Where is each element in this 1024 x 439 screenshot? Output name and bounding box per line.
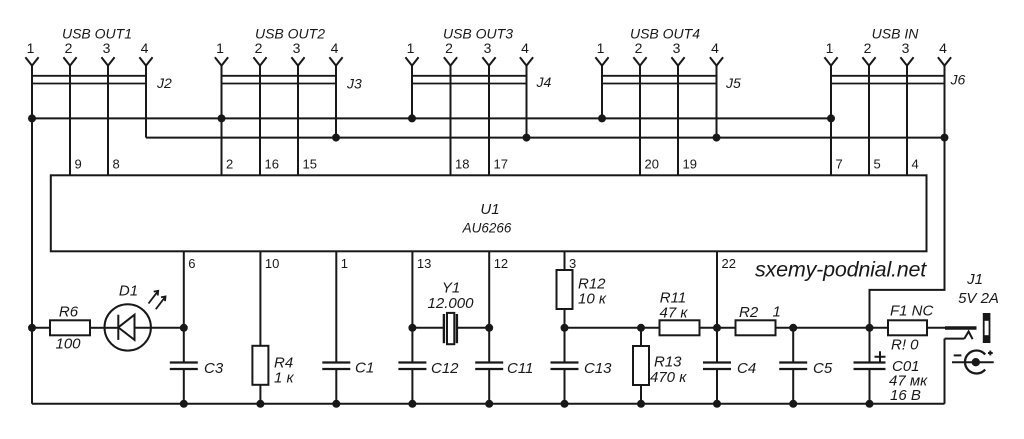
svg-text:1: 1: [407, 40, 415, 56]
svg-text:47 к: 47 к: [660, 305, 689, 322]
wire J2 pin4 to +5V bus: [145, 66, 147, 138]
wire J4 pin2 to U1 pin18: [450, 66, 452, 176]
svg-text:USB OUT2: USB OUT2: [255, 26, 325, 42]
capacitor C13: [551, 328, 613, 404]
capacitor C11: [475, 360, 533, 404]
wire J3 pin4 to +5V bus: [335, 66, 337, 138]
svg-text:9: 9: [75, 156, 82, 171]
svg-text:J2: J2: [156, 75, 172, 91]
svg-text:R2: R2: [739, 304, 759, 321]
svg-text:USB IN: USB IN: [872, 26, 920, 42]
wire jack to GND bus: [944, 339, 946, 404]
node GND bus junctions: [28, 114, 36, 122]
svg-text:3: 3: [103, 40, 111, 56]
svg-text:16: 16: [265, 156, 279, 171]
svg-text:F1 NC: F1 NC: [890, 303, 934, 320]
node Y1 left (pin13): [408, 324, 416, 332]
svg-text:5: 5: [874, 156, 881, 171]
wire J5 pin1 to GND bus: [601, 66, 603, 119]
svg-text:Y1: Y1: [442, 280, 460, 297]
wire U1 pin22 to C4 node: [716, 251, 718, 362]
svg-text:2: 2: [226, 156, 233, 171]
svg-text:4: 4: [912, 156, 919, 171]
wire J4 pin1 to GND bus: [411, 66, 413, 119]
node Y1 right (pin12): [485, 324, 493, 332]
svg-text:18: 18: [455, 156, 469, 171]
connector J6 USB IN: [824, 26, 965, 88]
fuse F1 NC: [888, 303, 934, 354]
svg-text:sxemy-podnial.net: sxemy-podnial.net: [755, 258, 927, 282]
svg-text:4: 4: [141, 40, 149, 56]
svg-text:J6: J6: [950, 72, 966, 88]
capacitor C3: [170, 360, 224, 404]
connector J5 USB OUT4: [595, 26, 741, 92]
GND bottom bus: [32, 403, 945, 405]
wire J3 pin2 to U1 pin16: [259, 66, 261, 176]
svg-text:J4: J4: [536, 74, 552, 90]
svg-text:C3: C3: [204, 360, 224, 377]
wire J6 pin1 to U1 pin7: [830, 66, 832, 176]
svg-text:2: 2: [255, 40, 263, 56]
wire J6 pin4 to F1 node: [870, 66, 945, 328]
svg-text:4: 4: [521, 40, 529, 56]
capacitor C12: [398, 360, 459, 404]
svg-text:19: 19: [683, 156, 697, 171]
svg-text:3: 3: [484, 40, 492, 56]
resistor R4 1k: [252, 346, 294, 404]
svg-text:3: 3: [673, 40, 681, 56]
capacitor C5: [779, 328, 833, 404]
svg-text:20: 20: [645, 156, 659, 171]
wire F1 to jack: [927, 327, 946, 329]
wire J3 pin1 to U1 pin2: [221, 66, 223, 176]
svg-text:U1: U1: [480, 201, 499, 218]
svg-text:2: 2: [445, 40, 453, 56]
connector J3 USB OUT2: [215, 26, 362, 92]
svg-text:C13: C13: [584, 360, 612, 377]
svg-text:16 В: 16 В: [890, 387, 921, 404]
node left rail / R6: [28, 324, 36, 332]
capacitor C01 47uF 16V electrolytic: [854, 328, 929, 404]
svg-text:3: 3: [293, 40, 301, 56]
wire J5 pin3 to U1 pin19: [677, 66, 679, 176]
wire U1 pin12 to C11/Y1: [488, 251, 490, 362]
wire J2 pin1 / left GND rail: [31, 66, 33, 404]
resistor R12 10k: [557, 270, 607, 309]
crystal Y1 12.000: [412, 280, 489, 345]
node pin22/C4: [713, 324, 721, 332]
svg-text:1: 1: [216, 40, 224, 56]
svg-text:470 к: 470 к: [650, 369, 687, 386]
node +5V bus junctions: [332, 134, 340, 142]
svg-text:3: 3: [569, 256, 576, 271]
svg-text:8: 8: [113, 156, 120, 171]
svg-text:4: 4: [711, 40, 719, 56]
resistor R11 47k: [660, 290, 700, 336]
svg-text:R6: R6: [59, 304, 79, 321]
wire +5V row: [565, 327, 889, 329]
connector J2 USB OUT1: [25, 26, 172, 92]
svg-text:2: 2: [635, 40, 643, 56]
svg-text:1 к: 1 к: [274, 370, 295, 387]
svg-text:C4: C4: [737, 360, 756, 377]
wire R12 to C13 node: [564, 309, 566, 363]
wire J5 pin2 to U1 pin20: [639, 66, 641, 176]
svg-text:13: 13: [417, 256, 431, 271]
node R12/C13: [561, 324, 569, 332]
svg-text:C1: C1: [355, 360, 374, 377]
wire U1 pin1 to C1: [335, 251, 337, 362]
power jack J1 5V 2A: [945, 271, 999, 374]
wire J3 pin3 to U1 pin15: [297, 66, 299, 176]
svg-text:2: 2: [864, 40, 872, 56]
svg-text:R! 0: R! 0: [891, 337, 919, 354]
node C01/F1/+5V input: [866, 324, 874, 332]
svg-text:J5: J5: [725, 75, 741, 91]
svg-text:2: 2: [65, 40, 73, 56]
node pin6/C3: [180, 324, 188, 332]
svg-text:R13: R13: [654, 354, 682, 371]
node R13 top: [637, 324, 645, 332]
node bottom bus junctions: [180, 400, 188, 408]
resistor R6 100: [32, 304, 105, 353]
wire J2 pin2 to U1 pin9: [69, 66, 71, 176]
svg-text:22: 22: [722, 256, 736, 271]
wire J6 pin3 to U1 pin4: [906, 66, 908, 176]
wire U1 pin13 to C12/Y1: [411, 251, 413, 362]
svg-text:1: 1: [773, 304, 781, 321]
svg-text:100: 100: [55, 336, 81, 353]
wire J4 pin4 to +5V bus: [526, 66, 528, 138]
svg-text:AU6266: AU6266: [462, 221, 512, 236]
svg-text:1: 1: [27, 40, 35, 56]
svg-text:USB OUT1: USB OUT1: [62, 26, 132, 42]
wire J4 pin3 to U1 pin17: [488, 66, 490, 176]
svg-text:4: 4: [939, 40, 947, 56]
svg-text:USB OUT3: USB OUT3: [443, 26, 513, 42]
svg-text:3: 3: [902, 40, 910, 56]
node C5: [789, 324, 797, 332]
connector J4 USB OUT3: [405, 26, 551, 91]
svg-text:1: 1: [597, 40, 605, 56]
capacitor C1: [322, 360, 374, 404]
wire J6 pin2 to U1 pin5: [868, 66, 870, 176]
LED D1: [105, 283, 184, 351]
svg-text:6: 6: [188, 256, 195, 271]
U1 bottom pin numbers: [188, 256, 736, 271]
svg-text:5V 2A: 5V 2A: [958, 290, 999, 307]
svg-text:17: 17: [494, 156, 508, 171]
svg-text:1: 1: [341, 256, 348, 271]
svg-text:7: 7: [836, 156, 843, 171]
svg-text:15: 15: [303, 156, 317, 171]
svg-text:12.000: 12.000: [428, 295, 475, 312]
svg-text:D1: D1: [119, 283, 138, 300]
svg-text:12: 12: [494, 256, 508, 271]
svg-text:C11: C11: [507, 360, 533, 377]
wire U1 pin3 to R12: [564, 251, 566, 270]
wire U1 pin6 to LED node: [183, 251, 185, 362]
svg-text:4: 4: [331, 40, 339, 56]
GND bus (upper): [32, 117, 831, 119]
wire U1 pin10 to R4: [259, 251, 261, 345]
svg-text:J1: J1: [966, 271, 983, 288]
svg-text:C5: C5: [813, 360, 833, 377]
svg-text:10: 10: [265, 256, 279, 271]
op-amp U1 AU6266 hub controller: [51, 175, 927, 251]
wire J2 pin3 to U1 pin8: [107, 66, 109, 176]
capacitor C4: [703, 328, 756, 404]
wire J5 pin4 to +5V bus: [716, 66, 718, 138]
svg-text:C12: C12: [431, 360, 459, 377]
svg-text:10 к: 10 к: [578, 291, 607, 308]
U1 top pin numbers: [75, 156, 919, 171]
svg-text:J3: J3: [346, 76, 362, 92]
resistor R2 1: [736, 304, 781, 336]
resistor R13 470k: [633, 328, 687, 404]
+5V bus (lower): [146, 137, 945, 139]
svg-text:1: 1: [826, 40, 834, 56]
